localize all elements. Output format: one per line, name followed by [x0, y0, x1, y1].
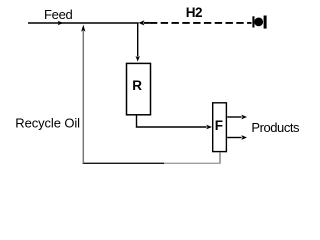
svg-text:F: F [215, 118, 223, 133]
svg-text:H2: H2 [186, 5, 202, 20]
wire H2 dashed line [139, 20, 252, 25]
wire recycle bottom gray segment [164, 162, 221, 164]
svg-text:R: R [132, 78, 142, 93]
flash F box [213, 103, 227, 152]
wire product stream 1 [227, 115, 247, 120]
wire recycle riser [81, 25, 85, 164]
wire feed line [28, 21, 139, 26]
reactor R box [127, 63, 151, 114]
svg-text:Products: Products [251, 120, 300, 135]
H2 source symbol [252, 16, 266, 29]
svg-text:Feed: Feed [44, 7, 73, 22]
wire reactor to flash [137, 116, 212, 130]
svg-text:Recycle Oil: Recycle Oil [15, 116, 80, 131]
wire recycle stub below flash [219, 152, 221, 163]
wire product stream 2 [227, 135, 247, 140]
wire feed drop into reactor [136, 23, 140, 62]
wire recycle bottom black segment [83, 162, 164, 164]
